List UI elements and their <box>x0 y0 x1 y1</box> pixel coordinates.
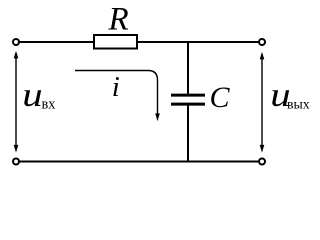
wire: capacitor top lead <box>187 41 189 94</box>
wire: top-left segment (input terminal to resistor) <box>19 41 95 43</box>
resistor R <box>94 35 137 49</box>
svg-text:C: C <box>210 81 231 114</box>
svg-text:вых: вых <box>287 97 310 112</box>
voltage arrow u_vx (double-headed, left side) <box>14 51 19 153</box>
voltage arrow u_vyx (double-headed, right side) <box>260 52 265 153</box>
capacitor C <box>171 95 205 104</box>
wire: bottom horizontal (input to output) <box>19 161 259 163</box>
wire: capacitor bottom lead <box>187 106 189 163</box>
label u_вх <box>22 77 55 114</box>
label u_вых <box>270 77 309 114</box>
wire: top-right segment (resistor to output terminal) <box>136 41 259 43</box>
svg-text:i: i <box>112 71 120 103</box>
terminal: output bottom <box>259 159 265 165</box>
terminal: input bottom <box>13 159 19 165</box>
svg-text:вх: вх <box>42 97 56 113</box>
svg-text:u: u <box>22 77 42 114</box>
terminal: output top <box>259 39 265 45</box>
terminal: input top <box>13 39 19 45</box>
current arrow i <box>75 71 160 122</box>
svg-text:R: R <box>108 2 129 38</box>
